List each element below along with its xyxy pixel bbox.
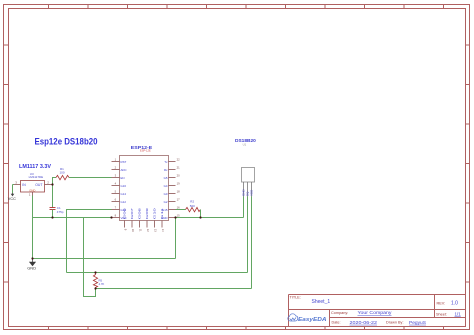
svg-text:G5: G5 [164, 176, 168, 180]
svg-text:475p: 475p [57, 210, 64, 214]
svg-text:G0: G0 [164, 192, 168, 196]
svg-text:20: 20 [177, 174, 180, 178]
svg-text:13: 13 [154, 229, 158, 232]
svg-text:G06: G06 [123, 207, 127, 219]
svg-text:Date:: Date: [332, 321, 341, 325]
U2 bottom pins 9-14 [125, 221, 163, 228]
wire ground rail to ESP pin8 [53, 217, 112, 219]
wire U3 GND pin down to GND [32, 196, 34, 259]
wire R1 to ESP EN [69, 177, 112, 179]
svg-text:U1: U1 [243, 142, 247, 146]
svg-text:IN: IN [22, 183, 26, 187]
svg-text:1.0: 1.0 [451, 301, 458, 307]
wire ESP GND pin15 to DS18B20 pin1 [176, 217, 244, 219]
svg-text:G14: G14 [121, 192, 127, 196]
wire U3 OUT down to C1 [52, 185, 54, 208]
wire rail down-jog to R5 bottom [84, 218, 96, 297]
net flag VCC [8, 185, 16, 202]
ground symbol GND [27, 259, 36, 271]
voltage regulator U3 LM1117 [21, 172, 45, 193]
module U2 ESP12-E [120, 145, 169, 221]
svg-text:GND: GND [27, 266, 36, 271]
U3 pin 3 (IN) [14, 180, 21, 184]
svg-text:VDD: VDD [250, 189, 254, 196]
svg-text:12: 12 [146, 229, 150, 232]
svg-text:REV:: REV: [437, 301, 446, 305]
svg-text:VCC: VCC [8, 197, 16, 201]
svg-text:Esp12e DS18b20: Esp12e DS18b20 [35, 136, 98, 147]
U1 pin stubs [244, 182, 252, 197]
svg-text:OUT: OUT [35, 183, 42, 187]
svg-text:Sheet_1: Sheet_1 [312, 299, 331, 305]
svg-text:500: 500 [190, 204, 195, 208]
resistor R1 [56, 167, 69, 180]
capacitor C1 475p [50, 206, 64, 214]
svg-text:ESP-12E: ESP-12E [140, 148, 151, 152]
wire pin15 down to GND run [175, 218, 177, 259]
svg-text:G07: G07 [130, 207, 134, 219]
svg-text:G4: G4 [164, 184, 168, 188]
svg-text:RST: RST [121, 160, 127, 164]
svg-text:TITLE:: TITLE: [290, 296, 301, 300]
U2 left pins 1-8 [112, 162, 120, 218]
svg-text:LM1117DE: LM1117DE [29, 175, 44, 179]
title block [289, 295, 466, 327]
U2 right pins 22-15 [169, 162, 176, 218]
svg-text:G08: G08 [138, 207, 142, 219]
svg-text:Rx: Rx [164, 168, 168, 172]
svg-text:4.7K: 4.7K [99, 282, 105, 286]
svg-text:Drawn By:: Drawn By: [386, 321, 404, 325]
svg-text:21: 21 [177, 166, 180, 170]
sensor U1 DS18B20 [235, 138, 256, 182]
wire DS18B20 pin2 down to DQ net [247, 197, 249, 273]
svg-text:PegyuS: PegyuS [409, 320, 426, 325]
svg-text:18: 18 [177, 190, 180, 194]
U1 pin labels GND DQ VDD [242, 189, 254, 197]
wire R2 down to GND wire [200, 210, 202, 218]
svg-text:Sheet:: Sheet: [436, 312, 447, 316]
resistor R2 [186, 200, 201, 212]
wire DS18B20 pin1 down to GND net [243, 197, 245, 218]
svg-text:19: 19 [177, 182, 180, 186]
U3 pin 2 (OUT) [45, 180, 53, 184]
svg-text:EasyEDA: EasyEDA [298, 317, 327, 323]
svg-text:G10: G10 [153, 207, 157, 219]
svg-text:1/1: 1/1 [455, 312, 462, 317]
svg-text:Tx: Tx [164, 160, 168, 164]
svg-text:17: 17 [177, 198, 180, 202]
svg-text:Company:: Company: [331, 311, 348, 315]
wire ESP G13 to DQ line [67, 210, 112, 273]
resistor R5 4.7K [93, 273, 104, 289]
wire VCC to U3 pin3 [13, 184, 15, 186]
svg-text:2020-06-22: 2020-06-22 [350, 320, 378, 325]
svg-text:100: 100 [60, 171, 65, 175]
svg-text:G09: G09 [145, 207, 149, 219]
EasyEDA logo [288, 314, 327, 323]
wire DS18B20 pin3 down to VDD net [251, 197, 253, 289]
svg-text:Your Company: Your Company [358, 310, 393, 315]
wire C1 bottom to ground rail [52, 210, 54, 218]
wire VDD rail to DS18B20 pin3 [96, 288, 252, 290]
svg-text:ADC: ADC [121, 168, 127, 172]
svg-text:14: 14 [161, 229, 165, 232]
svg-text:22: 22 [177, 158, 180, 162]
U3 pin 1 (GND) [29, 192, 33, 196]
svg-text:G12: G12 [121, 200, 127, 204]
wire ESP G15 to R2 [176, 209, 186, 211]
wire U3 OUT up to R1 [53, 178, 57, 185]
svg-text:EN: EN [121, 176, 125, 180]
svg-text:LM1117 3.3V: LM1117 3.3V [19, 164, 52, 170]
svg-text:G16: G16 [121, 184, 127, 188]
wire DQ horizontal [67, 272, 248, 274]
svg-text:G11: G11 [160, 207, 164, 219]
wire ground rail left branch [33, 217, 53, 219]
svg-text:10: 10 [131, 229, 135, 232]
svg-text:G2: G2 [164, 200, 168, 204]
junction dots [31, 183, 201, 289]
wire GND horizontal run [33, 258, 176, 260]
